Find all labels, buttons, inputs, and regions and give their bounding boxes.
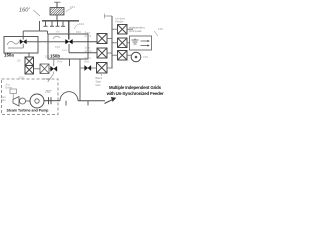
svg-text:Grid 1: Grid 1: [85, 34, 93, 38]
svg-text:Black: Black: [96, 76, 103, 80]
svg-text:160′: 160′: [19, 8, 30, 14]
svg-text:Xfmr: Xfmr: [57, 61, 62, 64]
svg-text:15b: 15b: [17, 59, 22, 63]
svg-text:Gen: Gen: [96, 83, 102, 87]
svg-text:162′: 162′: [45, 90, 52, 94]
svg-text:152: 152: [55, 45, 60, 49]
svg-text:161: 161: [70, 5, 75, 9]
svg-text:Multiple Independent Grids: Multiple Independent Grids: [109, 85, 162, 90]
svg-text:153: 153: [76, 30, 81, 34]
svg-text:150b: 150b: [50, 54, 60, 59]
svg-text:166: 166: [158, 27, 163, 31]
svg-text:Brkr: Brkr: [85, 59, 90, 63]
svg-text:Grid 2: Grid 2: [85, 49, 93, 53]
svg-text:conv: conv: [62, 49, 68, 52]
svg-text:156: 156: [143, 55, 148, 59]
svg-text:163: 163: [79, 22, 84, 26]
svg-text:Grid Load: Grid Load: [129, 29, 142, 33]
svg-text:with Un-Synchronized Feeder: with Un-Synchronized Feeder: [106, 91, 164, 96]
svg-text:Feeder: Feeder: [116, 21, 124, 24]
svg-text:Start: Start: [96, 80, 102, 84]
svg-text:Stm: Stm: [1, 98, 7, 102]
svg-text:Steam Turbine and Pump: Steam Turbine and Pump: [7, 109, 49, 113]
svg-text:150a: 150a: [4, 53, 14, 58]
